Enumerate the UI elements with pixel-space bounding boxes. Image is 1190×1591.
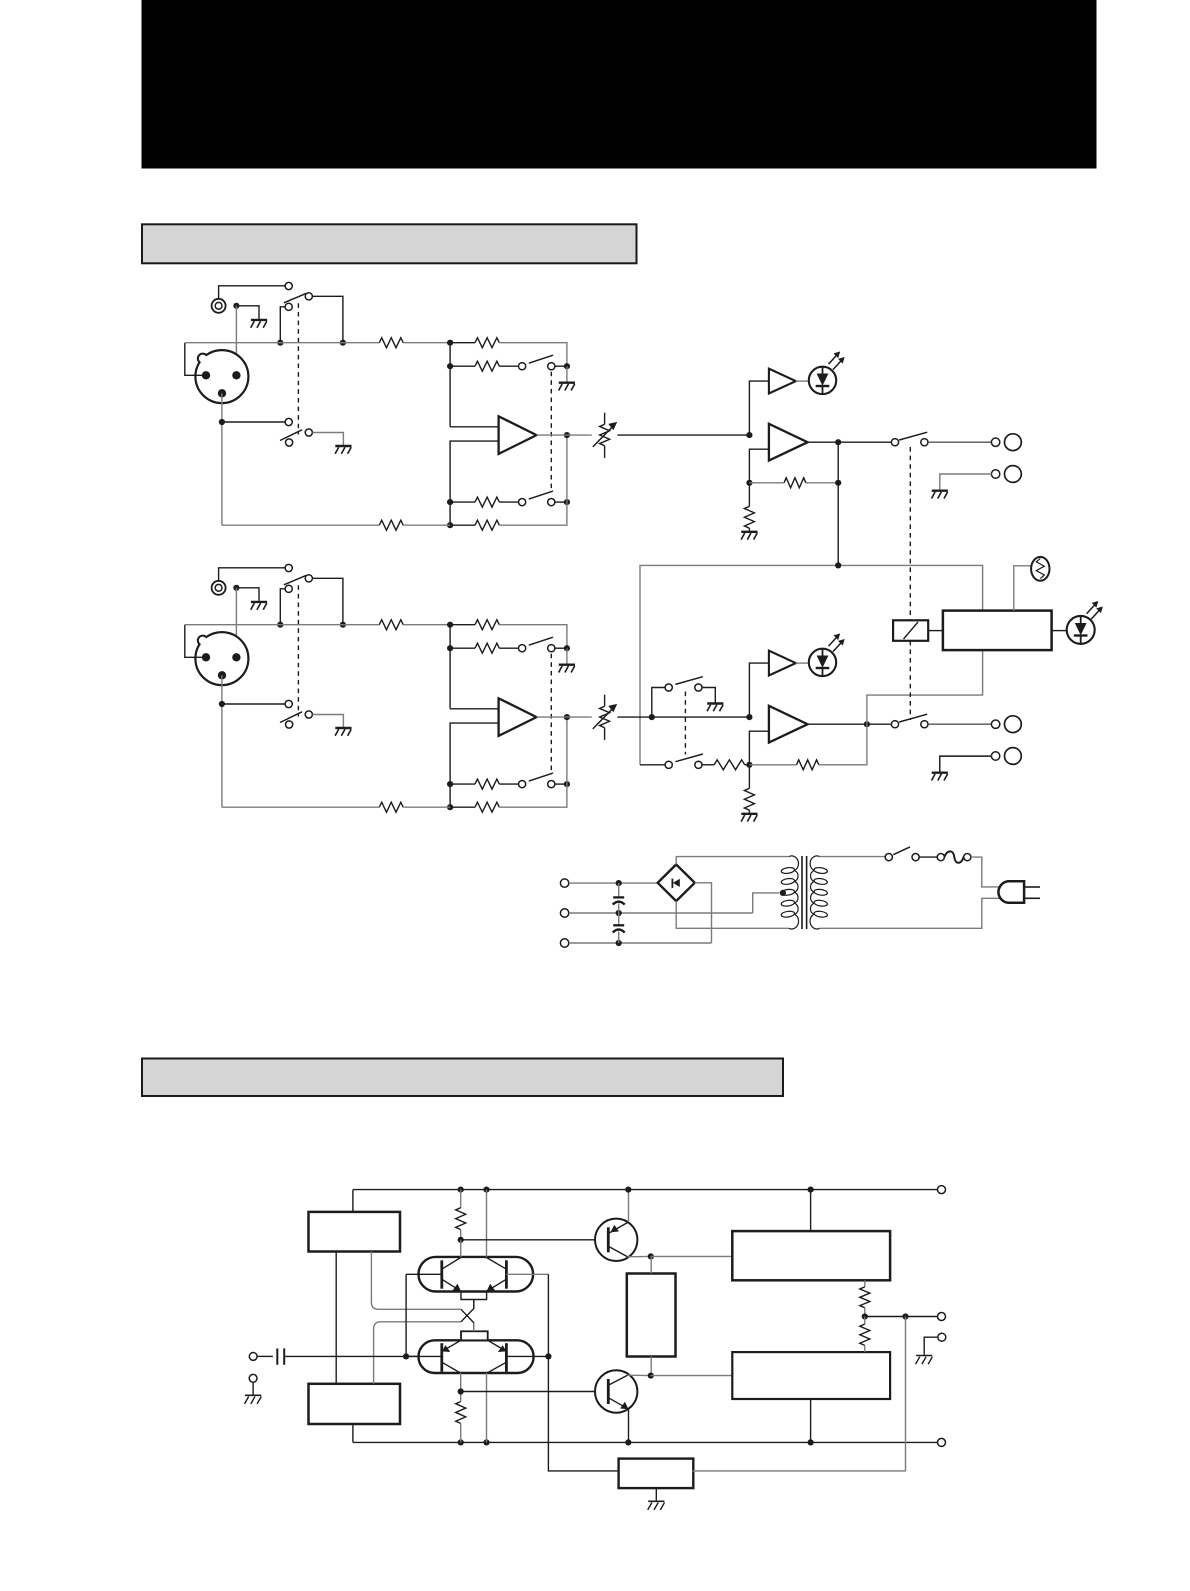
CH1 pad switch S1d contact a (519, 499, 526, 506)
CH1 series resistor R11 (379, 338, 403, 348)
wire secondary top to power switch (820, 856, 886, 858)
CH2 wire S2f to R28 (702, 764, 714, 766)
CH2 R23 row dot (447, 645, 453, 651)
CH2 wire amp - input (450, 723, 499, 807)
wire 0V to center tap (753, 893, 780, 913)
CH2 XLR pin 2 (232, 653, 240, 661)
CH1 switch SW1a pole contact (285, 303, 292, 310)
wire bridge bottom to transformer (676, 901, 789, 928)
PA Q4 collector lead (628, 1374, 651, 1376)
CH2 power amp U23 (769, 706, 808, 743)
PA bottom rail dot a (458, 1439, 464, 1445)
CH1 ground (jack sleeve) (251, 319, 267, 321)
CH2 mono switch S2e contact b (695, 684, 702, 691)
PA bottom rail (353, 1441, 937, 1443)
PA resistor Rb (460, 1373, 462, 1392)
CH1 wire node to R12 to pad rail (450, 342, 475, 344)
CH2 SW2a common junction dot (340, 622, 346, 628)
fuse F1 contact b (964, 854, 971, 861)
CH1 wire jack tip to switch NC (219, 286, 286, 299)
CH2 pad switch S2c contact a (519, 645, 526, 652)
CH1 wire S1d to fb rail (555, 501, 567, 503)
transformer T1 primary winding (781, 867, 795, 874)
PA wire Ra node to Q3 base (461, 1239, 609, 1241)
PA ground (input) (245, 1394, 261, 1396)
CH2 wire pad rail to ground (566, 648, 568, 664)
CH1 out terminal inner 1- (991, 470, 999, 478)
wire relay to protection block (928, 630, 943, 632)
CH1 feedback resistor R12 (top) (475, 338, 499, 348)
CH1 bottom series resistor R16 (379, 520, 403, 530)
CH2 main input line (185, 624, 379, 626)
CH1 fb rail to signal line (566, 435, 568, 502)
CH2 out relay contact pole (891, 721, 898, 728)
PA wire gnd terminal stub (924, 1337, 938, 1355)
CH1 peak comparator U12 (769, 369, 796, 394)
PA wire Rb node to Q4 base (461, 1391, 609, 1393)
CH2 power amp input dot (746, 714, 752, 720)
power switch SW3 contact a (885, 854, 892, 861)
PA fb rail dot (545, 1353, 551, 1359)
CH2 ground resistor R27 (744, 788, 754, 810)
CH2 fb rail dot (564, 781, 570, 787)
CH1 wire to peak comparator (749, 381, 769, 435)
CH1 R13 row dot (447, 363, 453, 369)
CH2 R24 row dot (447, 781, 453, 787)
CH1 wire terminal- to ground (940, 474, 992, 490)
CH2 feedback resistor R22 (top) (475, 620, 499, 630)
PSU wire 0V line (569, 912, 753, 914)
PA Q4 collector dot (648, 1373, 654, 1379)
CH2 mono gang dashes (684, 692, 686, 755)
CH1 switch SW1b arm (280, 430, 302, 441)
PA output terminal (938, 1313, 946, 1321)
PA input cap C10 (257, 1355, 273, 1357)
CH1 switch SW1b pole contact (286, 439, 293, 446)
PSU dot 0V (616, 910, 622, 916)
CH2 input amp U21 (499, 698, 537, 736)
PA wire output to NFB (693, 1317, 906, 1471)
CH2 wire terminal- to ground (black overdraw) (940, 756, 992, 773)
CH1 XLR pin 3 (218, 389, 226, 397)
AC plug P1 (998, 881, 1024, 903)
PSU dot +V (616, 880, 622, 886)
thermal lamp LA1 (1031, 557, 1049, 581)
CH2 wire sleeve to ground (236, 588, 259, 601)
CH2 XLR pin 3 (218, 671, 226, 679)
PA Q2 right base lead (506, 1355, 548, 1357)
CH1 bottom row dot (447, 522, 453, 528)
CH1 wire fb node to R17 to ground (748, 483, 750, 507)
PA Q2 right emitter (488, 1340, 507, 1351)
CH2 wire bus to S2f (640, 764, 665, 766)
CH2 switch SW2b arm (280, 712, 302, 723)
CH1 wire XLR pin1 to main line (185, 343, 205, 376)
PA top rail dot a (458, 1187, 464, 1193)
PSU dot -V (616, 940, 622, 946)
relay gang dashes (ch2 side) (909, 641, 911, 720)
CH1 volume pot VR1 (593, 413, 617, 458)
CH2 mono switch S2f contact a (665, 761, 672, 768)
PA Q1 right base lead (506, 1273, 548, 1275)
CH1 wire amp out to pot (537, 434, 592, 436)
PA top rail (353, 1189, 937, 1191)
PA output fb dot (902, 1313, 908, 1319)
CH2 pad resistor R23 (475, 643, 499, 653)
CH2 wire bottom line (222, 806, 379, 808)
PA Q3 collector lead (628, 1255, 651, 1257)
PA Q2 left collector (442, 1362, 461, 1373)
CH2 jack sleeve node dot (233, 585, 239, 591)
CH1 power amp input dot (746, 432, 752, 438)
CH1 switch SW1a arm (284, 293, 307, 303)
CH2 ground (terminal-) (932, 772, 948, 774)
PA Q1 right base bar (505, 1260, 508, 1288)
CH1 feedback resistor R15 (bottom) (475, 520, 499, 530)
CH2 pad switch S2c arm (529, 637, 553, 645)
CH1 switch SW1a common contact (305, 293, 312, 300)
CH2 wire terminal- to ground (940, 756, 992, 772)
CH2 wire pin3 to SW2b NC (222, 703, 285, 705)
CH1 gang dashes SW1a-SW1b (297, 303, 299, 434)
PA top rail left leg to block B1 (352, 1190, 354, 1212)
CH1 wire bottom line (222, 524, 379, 526)
PA emitter resistor Rd (864, 1317, 866, 1325)
PA driver Q4 (NPN) (595, 1370, 637, 1412)
PA output block B4 (732, 1352, 890, 1399)
CH1 wire pin3 to SW1b NC (222, 421, 285, 423)
PA Q4 emitter to rail (628, 1409, 630, 1442)
PA wire Ra node to Q1pkg top (460, 1240, 462, 1257)
CH1 wire sleeve to ground (236, 306, 259, 319)
CH2 out binding post 2- (1005, 748, 1022, 765)
PA wire Q2pkg bottom to rail b (486, 1373, 488, 1442)
PSU cap C1 (618, 883, 620, 897)
CH1 R14 row dot (447, 499, 453, 505)
protection block A1 (943, 611, 1052, 651)
PA bottom rail dot c (625, 1439, 631, 1445)
CH2 out node dot (864, 721, 870, 727)
wire bridge right to -V (695, 883, 712, 943)
CH1 ground (R17) (741, 531, 757, 533)
PSU terminal +V (560, 879, 568, 887)
CH2 pin3 junction dot (219, 701, 225, 707)
PA wire B5 to Q4c (650, 1357, 652, 1376)
CH2 wire to amp + input (450, 708, 499, 710)
CH1 pin3 junction dot (219, 419, 225, 425)
PA input terminal (249, 1353, 257, 1361)
CH2 input node dot (447, 622, 453, 628)
CH2 mono resistor R28 (714, 760, 745, 770)
CH2 pad switch S2d contact b (548, 781, 555, 788)
CH2 vertical input+ rail (449, 625, 451, 709)
CH1 main input line (185, 342, 379, 344)
CH2 wire SW2b common to ground (312, 715, 343, 728)
CH1 fb node dot (746, 480, 752, 486)
CH1 pad switch S1d arm (529, 491, 553, 499)
PA Q1 left collector (442, 1258, 461, 1270)
PA block B1 (309, 1212, 401, 1252)
PA output block B3 (732, 1231, 890, 1280)
CH1 XLR connector (195, 350, 248, 403)
CH2 bottom series resistor R26 (379, 802, 403, 812)
CH2 wire throw to terminal (928, 723, 992, 725)
CH1 wire to amp + input (450, 426, 499, 428)
CH1 input node dot (447, 340, 453, 346)
CH2 wire amp - input leg (749, 731, 769, 765)
CH2 wire S2c to pad rail (555, 647, 567, 649)
PSU cap C2 (618, 913, 620, 925)
CH2 wire amp out to switch (808, 723, 892, 725)
bridge bus dot (835, 562, 841, 568)
CH2 gang dashes SW2a-SW2b (297, 585, 299, 716)
CH1 out relay arm (899, 432, 927, 440)
CH1 signal dot at pot (564, 432, 570, 438)
CH1 out relay contact throw (921, 439, 928, 446)
PA NFB block B6 (619, 1459, 694, 1489)
PA Q2 left base bar (440, 1343, 443, 1372)
CH2 feedback resistor R29 (797, 760, 819, 770)
CH1 wire sleeve node down to XLR pin 2 (235, 306, 237, 376)
CH2 wire fb node to R29 (749, 764, 796, 766)
bridge rectifier DB1 (658, 865, 695, 902)
transformer center tap dot (780, 890, 786, 896)
CH2 phone jack J2 (212, 581, 226, 595)
CH1 out relay contact pole (891, 439, 898, 446)
CH1 peak LED D11 (809, 367, 836, 394)
PA wire NFB gnd stub (655, 1488, 657, 1500)
transformer T1 core (801, 856, 803, 929)
PA dual transistor Q1 package (419, 1257, 534, 1292)
PA wire Q4c to block B4 (651, 1375, 733, 1377)
CH2 out terminal inner 2+ (991, 720, 999, 728)
PA wire gnd terminal (252, 1382, 254, 1394)
PA dual transistor Q2 package (419, 1340, 534, 1373)
PA top rail dot b (483, 1187, 489, 1193)
CH2 wire out to protection sense (867, 650, 983, 724)
CH2 wire to peak comparator (749, 663, 769, 717)
CH2 wire R24 row (450, 783, 475, 785)
CH1 wire pot to power amp (617, 434, 749, 436)
power switch SW3 arm (893, 847, 910, 855)
CH2 pad gang dashes (550, 654, 552, 773)
PA wire rail to B3 (810, 1190, 812, 1232)
CH2 out relay arm (899, 714, 927, 722)
CH2 signal dot at pot (564, 714, 570, 720)
fuse F1 element (944, 851, 963, 862)
CH2 switch SW2b pole contact (286, 721, 293, 728)
PSU terminal -V (560, 939, 568, 947)
PA input node dot (403, 1353, 409, 1359)
CH1 pad resistor R13 (475, 361, 499, 371)
PA top rail dot d (808, 1187, 814, 1193)
power switch SW3 contact b (912, 854, 919, 861)
wire bridge top to transformer (676, 857, 789, 865)
wire protection block to lamp (1014, 566, 1031, 611)
CH1 out binding post 1- (1005, 466, 1022, 483)
CH2 wire XLR pin1 to main line (185, 625, 205, 658)
CH1 SW1a pole junction dot (277, 340, 283, 346)
CH2 wire S2d to fb rail (555, 783, 567, 785)
PSU terminal 0V (560, 909, 568, 917)
CH2 ground (R27) (741, 813, 757, 815)
CH2 wire R29 to out rail (819, 724, 867, 765)
CH1 pad gang dashes (550, 372, 552, 491)
PA cross-couple wire B (374, 1322, 461, 1384)
CH1 wire bottom row to fb rail (450, 524, 475, 526)
CH2 wire pot to power amp (617, 716, 749, 718)
PA Q1 emitter tie (461, 1292, 487, 1300)
CH2 out binding post 2+ (1005, 716, 1022, 733)
PA wire Q3c to block B3 (651, 1255, 733, 1257)
CH1 ground resistor R17 (744, 506, 754, 528)
relay coil RY1 (893, 620, 928, 641)
CH2 switch SW2a NC contact (285, 564, 292, 571)
CH2 wire jack tip to switch NC (219, 568, 286, 581)
CH2 wire comparator to LED (796, 662, 809, 664)
PA Q3 emitter to rail (628, 1190, 630, 1222)
CH2 bottom row dot (447, 804, 453, 810)
CH2 mono switch S2e contact a (665, 684, 672, 691)
PA wire input node to Q1 left base (405, 1274, 407, 1356)
CH2 mono node dot (649, 714, 655, 720)
CH2 volume pot VR2 (593, 695, 617, 740)
CH2 wire S2e a to signal (652, 688, 665, 718)
PA top rail dot c (625, 1187, 631, 1193)
PA wire input to Q2 left base (406, 1355, 418, 1357)
CH2 XLR connector (195, 632, 248, 685)
CH2 wire S2e b to ground (702, 688, 715, 703)
CH1 wire amp - input (450, 441, 499, 525)
protect LED D31 (1067, 616, 1095, 644)
CH2 ground (S2e) (707, 702, 723, 704)
PA wire B1-B2 (335, 1252, 337, 1384)
PA bias block B5 (627, 1274, 676, 1357)
CH1 pad switch S1c arm (529, 355, 553, 363)
CH2 switch SW2a pole contact (285, 585, 292, 592)
PA ground (NFB) (648, 1500, 664, 1502)
PA Q1 right collector (487, 1258, 507, 1270)
CH2 wire amp out to pot (537, 716, 592, 718)
CH1 ground (SW1b) (335, 445, 351, 447)
CH2 wire R28 to fb node (745, 764, 750, 766)
CH1 phone jack J1 (212, 299, 226, 313)
CH1 switch SW1a NC contact (285, 282, 292, 289)
CH1 pad resistor R14 (475, 497, 499, 507)
relay gang dashes (ch1 side) (909, 447, 911, 620)
CH2 ground (pad rail) (559, 664, 575, 666)
CH2 wire node to R22 to pad rail (450, 624, 475, 626)
PA Q3 collector dot (648, 1253, 654, 1259)
CH1 switch SW1b NC contact (285, 418, 292, 425)
CH1 wire comparator to LED (796, 380, 809, 382)
CH2 peak LED D21 (809, 649, 836, 676)
PA wire B4 to rail (810, 1399, 812, 1442)
CH2 series resistor R21 (379, 620, 403, 630)
wire protection block to LED (1052, 630, 1067, 632)
PA output gnd terminal (938, 1333, 946, 1341)
wire switch to fuse (919, 856, 937, 858)
CH1 wire amp out to switch (808, 441, 892, 443)
PA Q2 right collector (487, 1362, 506, 1373)
wire secondary bottom to plug neutral (820, 898, 1003, 928)
PA rail terminal -B (938, 1438, 946, 1446)
PA wire Q3c to B5 (650, 1256, 652, 1273)
CH1 wire R13 row (450, 365, 475, 367)
CH2 wire SW2a common to main line (312, 578, 343, 624)
CH2 wire fb node to R27 to ground (748, 765, 750, 789)
CH1 XLR pin 2 (232, 371, 240, 379)
CH2 mono switch S2e arm (675, 677, 703, 685)
CH1 wire SW1a common to main line (312, 296, 343, 342)
wire fuse to plug hot (971, 857, 1003, 887)
PA driver Q3 (PNP) (595, 1219, 637, 1261)
section heading bar 2 (redacted) (142, 1059, 783, 1097)
CH1 power amp U13 (769, 424, 808, 461)
CH2 switch SW2b common contact (305, 711, 312, 718)
PA output node dot (862, 1313, 868, 1319)
PA bottom rail dot d (808, 1439, 814, 1445)
CH1 wire throw to terminal (928, 441, 992, 443)
CH1 wire pad rail to ground (566, 366, 568, 382)
PA Q1 left emitter (442, 1279, 461, 1291)
PA wire B2 to bottom rail (352, 1424, 354, 1442)
CH2 switch SW2a common contact (305, 575, 312, 582)
CH2 ground (jack sleeve) (251, 601, 267, 603)
CH1 vertical input+ rail (449, 343, 451, 427)
CH1 out node dot (835, 439, 841, 445)
CH1 wire SW1b common to ground (312, 433, 343, 446)
CH2 ground (SW2b) (335, 727, 351, 729)
CH1 wire SW1a pole to main line (280, 307, 285, 343)
PA Rb node dot (458, 1388, 464, 1394)
CH2 pad switch S2c contact b (548, 645, 555, 652)
bridge bus line (640, 565, 983, 764)
CH1 ground (pad rail) (559, 382, 575, 384)
CH1 pad rail top dot (564, 363, 570, 369)
PA block B2 (309, 1384, 401, 1424)
CH1 ground (terminal-) (932, 490, 948, 492)
PA Q2 left base lead (406, 1355, 442, 1357)
PA ground terminal (249, 1374, 257, 1382)
CH2 wire SW2a pole to main line (280, 589, 285, 625)
CH2 pad switch S2d contact a (519, 781, 526, 788)
PA Ra node dot (458, 1237, 464, 1243)
CH2 peak comparator U22 (769, 651, 796, 676)
CH1 wire R14 row (450, 501, 475, 503)
fuse F1 contact a (937, 854, 944, 861)
PA resistor Ra (460, 1190, 462, 1208)
CH2 out relay contact throw (921, 721, 928, 728)
PA bottom rail dot b (483, 1439, 489, 1445)
PA Q2 emitter tab (461, 1331, 488, 1340)
black title header block (142, 0, 1097, 169)
CH2 SW2a pole junction dot (277, 622, 283, 628)
CH2 XLR pin 1 (202, 653, 210, 661)
CH1 input amp U11 (499, 416, 537, 454)
section heading bar 1 (redacted) (142, 224, 637, 263)
CH1 pad switch S1c contact b (548, 363, 555, 370)
PA Q1 left base lead (406, 1273, 442, 1275)
PA wire rail b to Q1pkg top (486, 1190, 488, 1257)
CH2 mono switch S2f arm (675, 754, 703, 762)
CH2 switch SW2a arm (284, 575, 307, 585)
PA Q2 right base bar (505, 1343, 508, 1372)
PA emitter resistor Rc (864, 1280, 866, 1287)
PA wire output node to terminal (865, 1316, 938, 1318)
CH2 fb rail to signal line (566, 717, 568, 784)
CH1 switch SW1b common contact (305, 429, 312, 436)
